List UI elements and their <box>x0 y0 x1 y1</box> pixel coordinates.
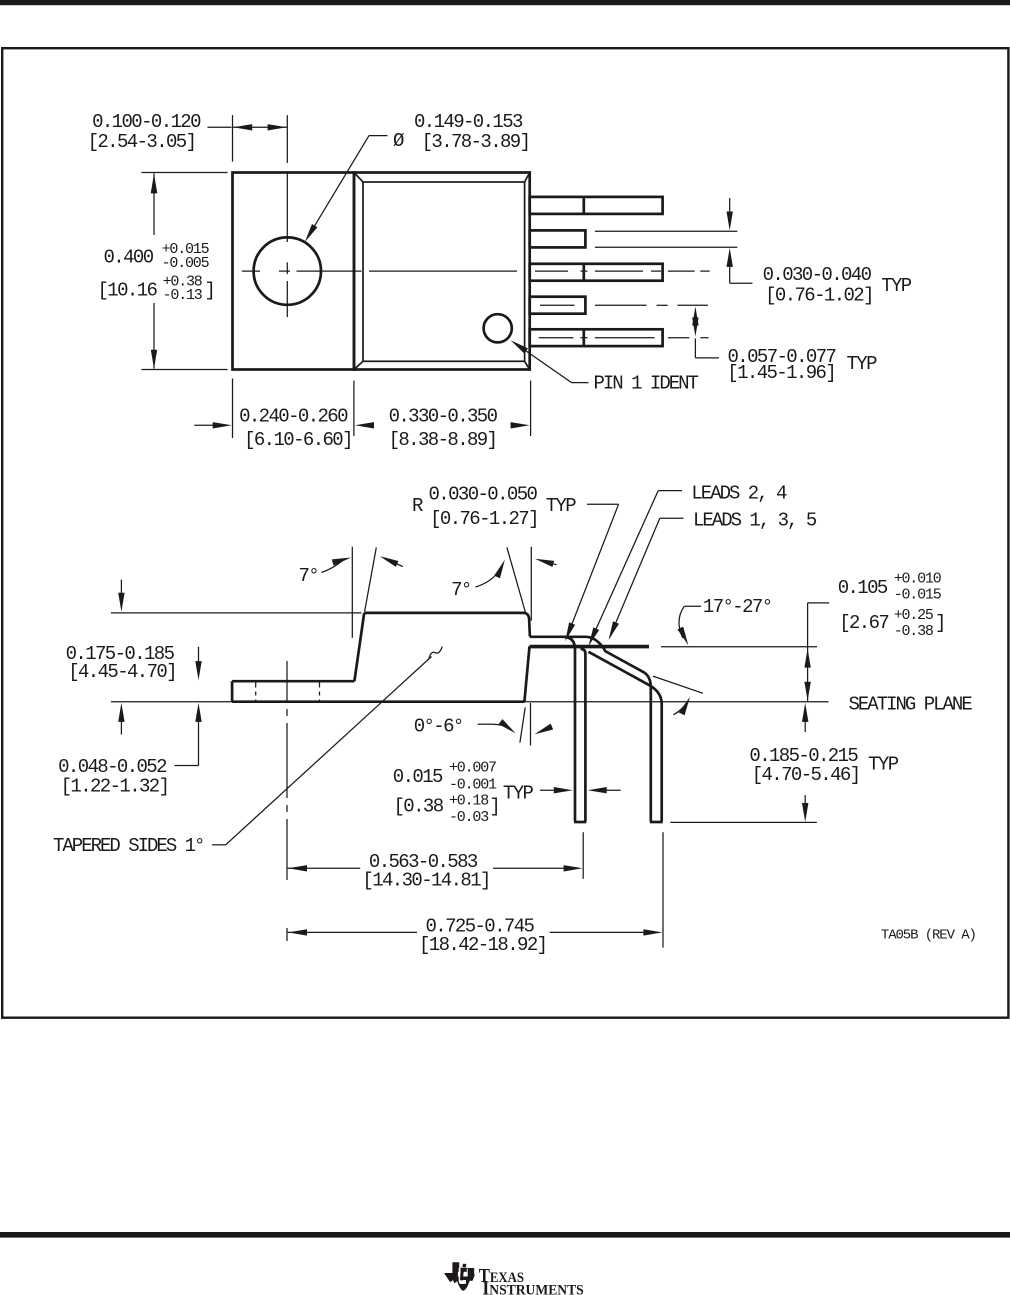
lead exit extension line (0.105 reference) <box>661 646 817 648</box>
svg-text:TYP: TYP <box>503 783 534 805</box>
svg-text:[10.16: [10.16 <box>98 280 158 302</box>
svg-text:LEADS 1, 3, 5: LEADS 1, 3, 5 <box>693 509 817 531</box>
lead 1 (top view) <box>530 197 663 214</box>
svg-text:[1.22-1.32]: [1.22-1.32] <box>61 776 169 798</box>
svg-text:0.149-0.153: 0.149-0.153 <box>414 111 523 133</box>
dimension 0.330-0.350 arrows <box>355 422 374 428</box>
PIN 1 IDENT label and leader arrow <box>572 382 589 384</box>
svg-text:0.030-0.040: 0.030-0.040 <box>763 264 872 286</box>
label LEADS 2, 4 with leader arrow <box>658 490 682 492</box>
side view: tab/package centerline <box>286 661 288 702</box>
top view: body corner chamfer lines <box>354 173 363 183</box>
svg-text:-0.38: -0.38 <box>894 623 934 640</box>
svg-text:0.330-0.350: 0.330-0.350 <box>389 406 498 428</box>
seating plane line <box>111 701 829 703</box>
svg-text:-0.015: -0.015 <box>894 587 942 604</box>
svg-text:]: ] <box>489 796 499 818</box>
svg-text:[3.78-3.89]: [3.78-3.89] <box>422 131 530 153</box>
dimension 0.105 leader and arrows <box>808 602 830 604</box>
leads top surface exiting body <box>530 635 587 638</box>
side view: body right edge upper <box>525 613 530 637</box>
side view: body top surface <box>364 612 524 615</box>
side view: body left draft edge <box>354 613 364 681</box>
extension line: tab left edge (above) <box>232 115 234 162</box>
dimension 0.100-0.120 line with arrows <box>208 126 232 128</box>
horizontal centerline through hole body and lead 3 <box>242 270 260 272</box>
lead 1,3,5 formed profile <box>587 637 651 822</box>
svg-text:0.030-0.050: 0.030-0.050 <box>429 484 538 506</box>
7 deg right: draft angle line <box>507 547 526 613</box>
svg-text:]: ] <box>935 612 945 634</box>
svg-text:[0.38: [0.38 <box>394 796 444 818</box>
svg-text:0°-6°: 0°-6° <box>414 716 463 738</box>
svg-text:TA05B (REV A): TA05B (REV A) <box>881 928 976 944</box>
svg-text:+0.007: +0.007 <box>449 760 496 777</box>
svg-text:[4.45-4.70]: [4.45-4.70] <box>68 661 176 683</box>
pin 1 ident circle <box>484 314 512 342</box>
top view: body inner (mold bevel) outline <box>363 182 525 361</box>
top black bar <box>0 0 1010 5</box>
dimension 0.057-0.077 arrows and leader <box>692 307 698 326</box>
vertical centerline through hole <box>286 115 288 163</box>
dimension 0.725-0.745 arrows <box>288 929 307 935</box>
0-6 deg slant line <box>520 708 525 743</box>
svg-text:[2.67: [2.67 <box>839 612 888 634</box>
svg-text:SEATING PLANE: SEATING PLANE <box>849 694 973 716</box>
svg-text:0.240-0.260: 0.240-0.260 <box>239 406 348 428</box>
svg-text:+0.010: +0.010 <box>894 571 942 588</box>
0-6 deg vertical reference line <box>530 703 532 745</box>
dimension 0.030-0.040 arrows and leader <box>729 198 731 213</box>
extension line lead 1,3,5 tip <box>662 832 664 947</box>
leads 1,3,5 bottom surface (bold) exiting body <box>530 645 650 649</box>
side view: bottom surface (tab + body) on seating plane <box>232 700 524 703</box>
svg-text:[8.38-8.89]: [8.38-8.89] <box>389 429 497 451</box>
svg-text:[1.45-1.96]: [1.45-1.96] <box>727 362 835 384</box>
svg-text:[2.54-3.05]: [2.54-3.05] <box>88 131 196 153</box>
lead 5 (top view) <box>530 329 663 346</box>
lead 4 centerline <box>540 304 575 306</box>
svg-text:TYP: TYP <box>847 353 878 375</box>
dimension 0.563-0.583 arrows <box>288 865 307 871</box>
svg-text:7°: 7° <box>451 579 471 601</box>
svg-text:0.400: 0.400 <box>103 247 153 269</box>
svg-text:7°: 7° <box>298 565 318 587</box>
svg-text:[14.30-14.81]: [14.30-14.81] <box>362 870 489 892</box>
tab thickness lower arrow and leader (0.048-0.052) <box>195 703 201 722</box>
extension line at lead tips <box>670 821 817 823</box>
7 deg left: vertical reference line <box>351 547 353 638</box>
svg-text:[6.10-6.60]: [6.10-6.60] <box>244 429 352 451</box>
side view: body right edge lower <box>524 646 529 701</box>
svg-text:TYP: TYP <box>881 275 912 297</box>
top view: mounting tab outline <box>233 173 355 370</box>
extension lines for 0.400 tab height <box>141 172 227 174</box>
svg-text:]: ] <box>205 280 215 302</box>
svg-text:-0.13: -0.13 <box>163 287 203 304</box>
TI logo Texas map glyph <box>444 1262 474 1291</box>
svg-text:0.048-0.052: 0.048-0.052 <box>58 756 167 778</box>
bottom black bar <box>0 1232 1010 1238</box>
0.175-0.185 upper arrow (down to body top) <box>120 580 122 598</box>
svg-text:TAPERED SIDES 1°: TAPERED SIDES 1° <box>53 835 203 857</box>
label LEADS 1, 3, 5 with leader arrow <box>660 517 684 519</box>
svg-text:-0.005: -0.005 <box>162 255 210 272</box>
dimension 0.015 arrows <box>540 789 556 791</box>
dimension 0.240-0.260 arrow <box>194 424 213 426</box>
svg-text:[0.76-1.02]: [0.76-1.02] <box>765 284 873 306</box>
top view: body outer outline <box>354 173 530 370</box>
extension lines below top view <box>232 379 234 439</box>
lead 5 centerline <box>539 337 574 339</box>
lead 2 (top view) <box>530 230 586 247</box>
side view: tab hidden hole edges (dashed) <box>255 683 257 702</box>
svg-text:TYP: TYP <box>546 495 577 517</box>
angle arc arrow near seating plane <box>674 701 689 715</box>
0.175-0.185 lower arrow (up to seating plane) <box>120 717 122 735</box>
svg-text:+0.18: +0.18 <box>449 793 489 810</box>
svg-text:-0.03: -0.03 <box>449 809 489 826</box>
extension lines for lead thickness <box>595 230 737 232</box>
svg-text:R: R <box>412 495 423 517</box>
svg-text:17°-27°: 17°-27° <box>703 596 772 618</box>
tab thickness upper arrow (down to tab top) <box>198 647 200 664</box>
svg-text:0.015: 0.015 <box>393 766 443 788</box>
svg-text:LEADS 2, 4: LEADS 2, 4 <box>691 483 787 505</box>
svg-text:0.105: 0.105 <box>838 577 888 599</box>
dimension 0.400 vertical line with arrows <box>153 174 155 236</box>
svg-text:-0.001: -0.001 <box>449 777 497 794</box>
7 deg right: vertical reference line <box>530 547 532 621</box>
extension of body top surface <box>111 612 362 614</box>
svg-text:PIN 1 IDENT: PIN 1 IDENT <box>594 373 699 395</box>
hole diameter leader arrow <box>369 135 388 137</box>
extension line lead 2,4 tip <box>582 832 584 879</box>
side view: tab outline <box>232 680 354 683</box>
top view: mounting hole <box>254 237 321 304</box>
7 deg left: draft angle line <box>365 548 377 612</box>
svg-text:0.100-0.120: 0.100-0.120 <box>92 111 201 133</box>
lead 3 (top view) <box>530 264 663 281</box>
dimension 0.185-0.215 arrows <box>802 703 808 722</box>
drawing frame border <box>2 48 1008 1018</box>
svg-text:TYP: TYP <box>868 754 899 776</box>
svg-text:[18.42-18.92]: [18.42-18.92] <box>419 934 546 956</box>
svg-text:[4.70-5.46]: [4.70-5.46] <box>752 764 860 786</box>
svg-text:Ø: Ø <box>393 130 404 152</box>
lead 2,4 formed profile <box>565 637 576 821</box>
svg-text:[0.76-1.27]: [0.76-1.27] <box>430 508 538 530</box>
angle reference slant line at seating plane <box>653 676 703 693</box>
svg-text:+0.25: +0.25 <box>894 607 934 624</box>
lead 4 (top view) <box>530 297 586 314</box>
